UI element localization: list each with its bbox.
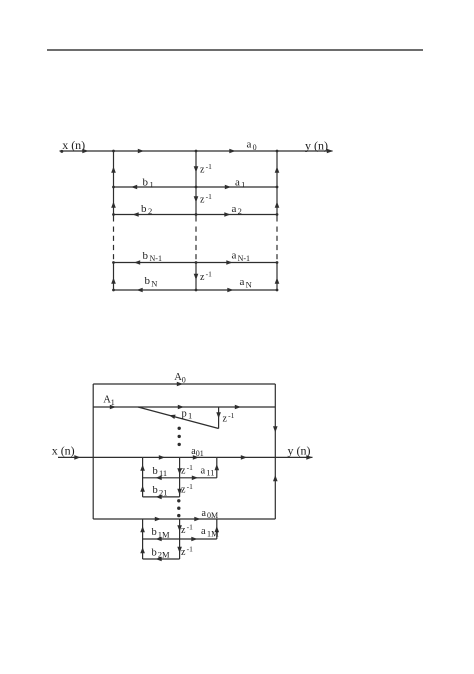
svg-text:aN-1: aN-1 (232, 250, 251, 263)
svg-text:z-1: z-1 (200, 162, 212, 175)
D2 branch: feedback gain b21 (143, 495, 180, 500)
svg-text:y (n): y (n) (288, 443, 311, 457)
D1 branch: feedback gain b1 (114, 185, 197, 190)
svg-text:a1: a1 (235, 176, 245, 189)
svg-text:x (n): x (n) (62, 138, 85, 152)
svg-text:b2M: b2M (152, 547, 171, 559)
svg-text:b1: b1 (143, 176, 154, 189)
D1 wire: output branch to y(n) (277, 149, 333, 154)
D1 wire: top branch left bus to delay-chain top node (114, 149, 197, 154)
D2 wire: outer right edge collecting bus (273, 384, 278, 519)
svg-text:x (n): x (n) (52, 443, 75, 457)
D2 branch: first-order section line with gain A1 (93, 405, 275, 410)
svg-text:z-1: z-1 (181, 523, 193, 536)
D1 branch: feedback gain bN-1 (114, 260, 197, 265)
svg-text:b1M: b1M (152, 527, 171, 539)
svg-text:A1: A1 (103, 395, 115, 407)
D2 branch: feedback gain b11 (143, 476, 180, 481)
D2 branch: feedback gain b2M (143, 557, 180, 562)
D1 branch: feed-forward gain a0 (top) (196, 149, 277, 154)
D1 junction dots (112, 150, 278, 292)
svg-text:a01: a01 (191, 446, 203, 458)
D2 section1 delay bus (vertical) (177, 457, 182, 497)
svg-text:A0: A0 (174, 372, 186, 384)
D2 branch: feedback gain b1M (143, 537, 180, 542)
D1 branch: feedback gain bN (bottom) (114, 288, 197, 293)
D1 node: input source dot x(n) (60, 150, 63, 153)
D2 branch: feed-forward gain a01 on main line (180, 455, 217, 460)
svg-text:a0: a0 (247, 139, 257, 152)
D2 wire: main line segment to section-1 input (143, 455, 180, 460)
horizontal header rule (47, 49, 423, 51)
svg-text:z-1: z-1 (223, 411, 235, 424)
D1 wire: left bus dashed continuation (113, 227, 115, 263)
svg-text:bN: bN (145, 275, 158, 288)
svg-text:b21: b21 (153, 485, 168, 497)
D2 delay branch z^-1 of first-order section (216, 407, 221, 429)
svg-text:b11: b11 (153, 466, 168, 478)
D2 sectionM left feedback bus (vertical) (140, 519, 145, 559)
D1 wire: delay bus dashed continuation (195, 227, 197, 263)
D1 wire: delay chain bus (vertical, down arrows) (194, 151, 199, 290)
svg-text:p1: p1 (182, 408, 193, 420)
D1 wire: input branch x(n) to left bus node (60, 149, 114, 154)
D1 branch: feed-forward gain aN (bottom) (196, 288, 277, 293)
D2 section1 left feedback bus (vertical) (140, 457, 145, 497)
svg-text:y (n): y (n) (305, 138, 328, 152)
svg-text:a0M: a0M (202, 508, 219, 520)
D2 wire: bottom distribution line into section M (93, 517, 179, 522)
D2 section1 right output bus (vertical) (215, 457, 220, 477)
svg-text:a1M: a1M (201, 526, 219, 538)
svg-text:z-1: z-1 (181, 482, 193, 495)
D2 branch: pole feedback gain p1 (diagonal) (138, 407, 219, 429)
D1 branch: feed-forward gain a1 (196, 185, 277, 190)
D2 sectionM right output bus (vertical) (215, 519, 220, 539)
svg-text:z-1: z-1 (181, 463, 193, 476)
D2 wire: left distribution bus (outer left edge) (92, 384, 94, 519)
D2 branch: feed-forward gain a1M (180, 537, 217, 542)
svg-text:z-1: z-1 (200, 270, 212, 283)
D2 wire: input line x(n) into network (58, 455, 143, 460)
D2 sectionM delay bus (vertical) (177, 519, 182, 559)
D2 ellipsis dots (omitted sections) (177, 499, 180, 517)
D2 wire: main line to output y(n) (217, 455, 313, 460)
svg-text:z-1: z-1 (181, 545, 193, 558)
D2 ellipsis dots (omitted first-order sections) (178, 427, 181, 447)
svg-text:a2: a2 (232, 203, 242, 216)
D1 branch: feedback gain b2 (114, 212, 197, 217)
svg-text:z-1: z-1 (200, 192, 212, 205)
D2 branch: constant gain A0 (outer top edge) (93, 382, 275, 387)
D1 wire: right bus dashed continuation (276, 227, 278, 263)
D1 wire: right output summing bus (vertical, up arrows) (275, 151, 280, 290)
D1 wire: left feedback summing bus (vertical, up arrows) (111, 151, 116, 290)
svg-text:aN: aN (240, 276, 252, 289)
svg-text:a11: a11 (201, 465, 215, 477)
D2 branch: feed-forward gain a11 (180, 476, 217, 481)
D2 branch: feed-forward gain a0M on bottom edge (180, 517, 276, 522)
svg-text:bN-1: bN-1 (143, 250, 162, 263)
D1 branch: feed-forward gain a2 (196, 212, 277, 217)
D1 branch: feed-forward gain aN-1 (196, 260, 277, 265)
